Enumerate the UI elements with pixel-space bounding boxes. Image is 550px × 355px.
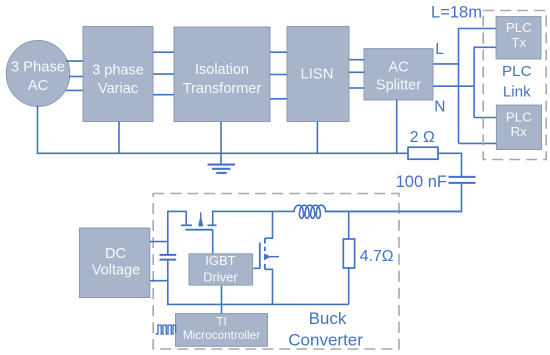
- wire DC- to input rail: [150, 280, 168, 282]
- svg-text:Voltage: Voltage: [92, 263, 140, 279]
- wire input rail upper: [168, 211, 186, 254]
- wire LISN bottom: [316, 122, 318, 154]
- buck converter dashed enclosure: [153, 194, 399, 350]
- transistor Q2 body arrow: [266, 254, 271, 260]
- inductor L1: [294, 205, 325, 218]
- svg-text:AC: AC: [28, 78, 49, 94]
- svg-text:Converter: Converter: [288, 330, 363, 349]
- wire variac bottom: [118, 122, 120, 154]
- capacitor C2 dc link: [160, 255, 177, 260]
- svg-text:PLC: PLC: [506, 20, 532, 35]
- svg-text:Splitter: Splitter: [376, 78, 421, 94]
- svg-text:Transformer: Transformer: [183, 81, 262, 97]
- svg-text:DC: DC: [105, 246, 126, 262]
- wire set isolation transformer to LISN: [270, 52, 287, 99]
- svg-text:Variac: Variac: [98, 81, 138, 97]
- block "3 phase Variac": [83, 27, 153, 122]
- svg-text:2 Ω: 2 Ω: [410, 129, 435, 146]
- wire isolation transformer bottom to ground: [220, 122, 222, 165]
- wire IGBT driver to Q2 gate: [253, 267, 259, 269]
- wire IGBT driver to microcontroller: [221, 286, 223, 314]
- svg-text:TI: TI: [216, 315, 226, 329]
- block "Isolation Transformer": [174, 27, 270, 122]
- svg-text:Microcontroller: Microcontroller: [183, 328, 260, 342]
- PLC Link dashed enclosure: [483, 11, 546, 160]
- wire Q1 gate to IGBT driver: [212, 230, 214, 254]
- svg-text:Tx: Tx: [511, 35, 526, 50]
- wire vertical bus to PLC Tx/Rx (line N): [474, 47, 496, 117]
- svg-text:L: L: [435, 41, 444, 58]
- wire ground bus: [37, 152, 408, 154]
- transistor Q1 high-side mosfet (horizontal): [181, 225, 217, 229]
- transistor Q2 low-side mosfet (vertical): [260, 238, 265, 269]
- wire from source bottom: [37, 106, 39, 153]
- resistor R2 4.7 ohm: [348, 211, 350, 239]
- svg-text:100 nF: 100 nF: [396, 173, 447, 191]
- node N wire from splitter: [433, 85, 475, 87]
- wire Q2 drain to rail: [265, 211, 273, 238]
- wire capacitor down to buck output rail: [325, 184, 462, 212]
- wire input rail lower: [167, 260, 169, 305]
- block "PLC Rx": [496, 105, 541, 149]
- wire rail inductor to resistor junction: [325, 210, 462, 212]
- svg-text:3 phase: 3 phase: [92, 63, 144, 79]
- block "IGBT Driver": [189, 253, 253, 285]
- block "DC Voltage": [80, 228, 150, 298]
- wire AC splitter bottom: [396, 100, 398, 153]
- block "LISN": [287, 27, 349, 122]
- svg-text:4.7Ω: 4.7Ω: [360, 248, 394, 265]
- capacitor C1 100 nF: [449, 177, 476, 183]
- svg-text:Rx: Rx: [511, 124, 528, 139]
- pwm square wave symbol: [156, 325, 176, 334]
- ground symbol: [208, 165, 236, 173]
- block "TI Microcontroller": [176, 314, 268, 347]
- block "PLC Tx": [496, 17, 541, 59]
- svg-text:PLC: PLC: [502, 63, 532, 80]
- wire DC+ to input rail: [150, 241, 168, 243]
- wire resistor to capacitor node: [438, 153, 462, 176]
- svg-text:3 Phase: 3 Phase: [11, 59, 65, 75]
- svg-text:L=18m: L=18m: [431, 3, 482, 21]
- svg-text:IGBT: IGBT: [205, 253, 235, 268]
- svg-text:AC: AC: [388, 59, 408, 75]
- wire set source to variac: [66, 61, 83, 90]
- wire Q2 source to bottom rail: [265, 269, 273, 304]
- svg-text:Driver: Driver: [203, 270, 238, 285]
- svg-text:PLC: PLC: [506, 109, 532, 124]
- node L wire from splitter: [433, 63, 459, 65]
- svg-text:Link: Link: [503, 84, 531, 101]
- svg-text:N: N: [434, 98, 445, 115]
- wire Q1 source stub to rail: [213, 211, 295, 225]
- block "AC Splitter": [364, 49, 433, 100]
- source V1 "3 Phase AC" circle: [6, 41, 70, 107]
- svg-text:Buck: Buck: [309, 309, 347, 328]
- wire vertical bus to PLC Tx/Rx (line L): [459, 29, 497, 144]
- wire bottom rail: [167, 303, 349, 305]
- wire set variac to isolation transformer: [153, 52, 174, 94]
- transistor Q1 body arrow: [198, 215, 203, 227]
- svg-text:LISN: LISN: [301, 67, 334, 83]
- resistor R1 2 ohm: [408, 147, 438, 159]
- svg-text:Isolation: Isolation: [195, 62, 249, 78]
- wire set LISN to AC splitter: [349, 60, 364, 88]
